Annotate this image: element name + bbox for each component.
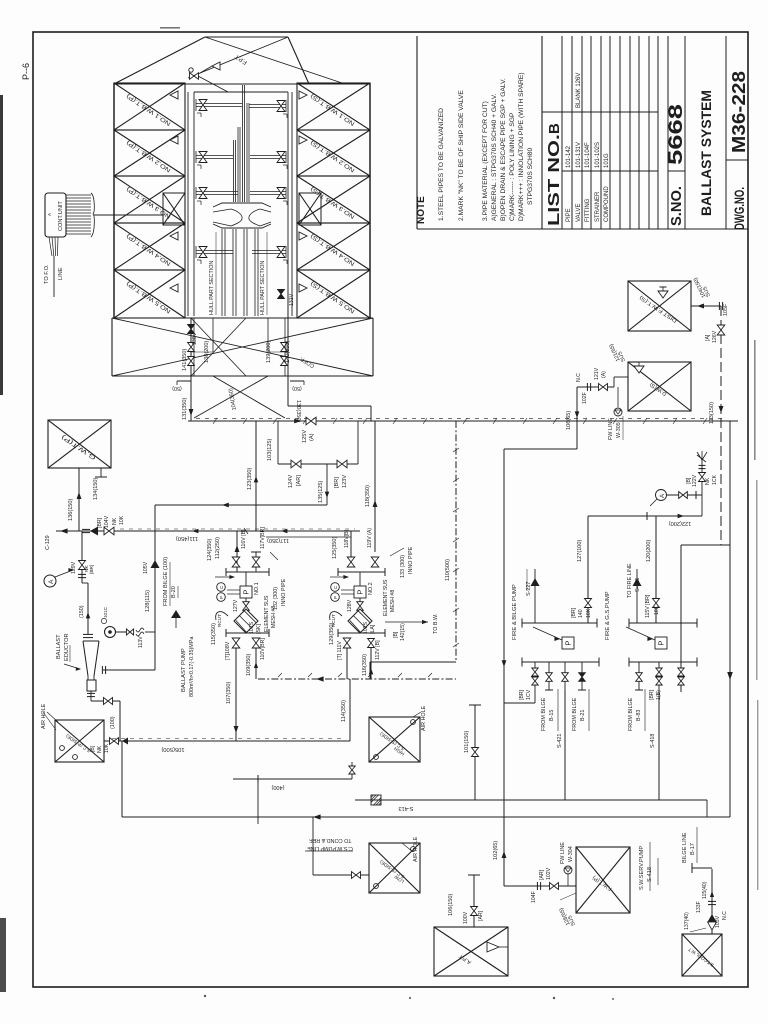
no.1 riser to manifold [236,531,238,572]
collision bulkhead [114,83,370,85]
valve 121V [599,384,608,391]
cont unit drain lines [49,237,52,256]
G.W.T(P) tank [48,420,111,468]
svg-text:105V: 105V [143,561,149,574]
pipe 142(15) to B.W. [385,621,428,623]
tank NO.5 W.B.T.(P) [114,270,185,318]
tank NO.1 W.B.T.(S) [297,83,370,130]
fire pump loop rectangle [681,544,730,546]
no.2 upper manifold [338,571,385,573]
svg-text:122(200): 122(200) [669,520,692,526]
svg-text:P: P [219,596,224,599]
tank NO.4 W.B.T.(S) [297,223,370,270]
header check valve and 104V [82,528,90,530]
svg-text:110V[BR]: 110V[BR] [260,638,266,660]
pipe riser stbd 140(350) [287,291,289,376]
main suction header 111(450) [56,530,360,532]
tank NO.3 W.B.T.(S) [297,176,370,223]
svg-text:118V[B]: 118V[B] [344,529,350,548]
riser port sounding (50) [177,380,191,382]
svg-text:(150): (150) [79,605,85,618]
pipe 113(150) [719,406,724,413]
svg-text:B-20: B-20 [171,586,177,598]
svg-text:P: P [657,641,666,646]
svg-text:142(15): 142(15) [400,623,406,641]
no.1 upper manifold [226,571,269,573]
svg-text:FITTING: FITTING [585,198,591,222]
svg-text:111(450): 111(450) [176,535,198,541]
svg-text:2.MARK "NK" TO BE OF SHIP SIDE: 2.MARK "NK" TO BE OF SHIP SIDE VALVE [458,90,465,221]
svg-text:129(350): 129(350) [329,622,335,645]
svg-text:TO FIRE LINE: TO FIRE LINE [627,563,633,598]
svg-text:135(125): 135(125) [318,480,324,503]
svg-text:NK: NK [112,517,118,525]
svg-text:[A]: [A] [705,334,711,341]
svg-text:123(350): 123(350) [247,467,253,490]
A.P.T tank [434,927,508,976]
pipe riser port 141(350) [190,318,192,421]
svg-text:103V: 103V [715,915,721,928]
flange 105F [718,302,720,310]
strainer 101S [234,609,258,633]
fire gs pump suction manifold [629,622,697,624]
svg-text:1CV: 1CV [526,689,532,700]
pipe TO F.O. LINE [53,256,55,297]
pipe 101(150) [474,705,476,800]
svg-text:130(350): 130(350) [295,400,301,423]
pipe 106(65) [576,387,578,449]
svg-text:[T]108V: [T]108V [225,641,231,660]
svg-text:INNO PIPE: INNO PIPE [408,546,414,574]
svg-text:122V: 122V [692,474,698,487]
svg-text:5668: 5668 [666,104,687,165]
svg-text:NK: NK [705,477,711,485]
svg-text:S-418: S-418 [650,734,656,748]
svg-text:B: B [546,123,563,134]
svg-text:P: P [242,590,251,595]
riser 123(350) [255,421,257,531]
valve on S-high drop [351,762,353,779]
svg-text:RCUT: RCUT [217,614,222,627]
svg-text:(50): (50) [172,385,182,391]
svg-text:118(350): 118(350) [365,485,371,507]
svg-text:104V: 104V [104,515,110,528]
svg-text:NO.1: NO.1 [254,582,260,595]
svg-text:BLANK 126V: BLANK 126V [576,73,582,108]
svg-text:P: P [356,590,365,595]
main ballast header 100(500) horizontal [188,420,738,422]
svg-text:P: P [564,641,573,646]
svg-text:(A): (A) [601,371,607,378]
tank NO.4 W.B.T.(P) [114,223,185,270]
svg-text:LINE: LINE [58,267,64,280]
svg-text:101S: 101S [249,621,255,634]
discharge valves and bilge suctions [534,662,536,703]
fire main 122(200) [588,515,702,517]
label 117(350) [266,536,351,538]
sea chest S-side low [369,843,420,893]
svg-text:VALVE: VALVE [576,204,582,222]
bow valve cluster [190,73,199,79]
svg-text:[AR]: [AR] [539,869,545,880]
svg-text:BALLAST SYSTEM: BALLAST SYSTEM [699,90,714,216]
svg-text:133F: 133F [696,901,702,913]
DIST F.W.T (S) tank [628,281,691,331]
svg-text:128V: 128V [347,599,353,612]
svg-text:AIR HOLE: AIR HOLE [421,705,427,731]
svg-text:127V: 127V [233,599,239,612]
valve BR 140 10K [585,599,592,608]
hull section curves [231,209,242,226]
svg-text:STPG370S SCH80: STPG370S SCH80 [527,147,534,205]
main sea suction 105(500) [104,740,350,742]
bypass loop 103(125) [278,463,358,465]
valve on S-low feed [312,817,314,875]
no.1 gauge and strainer line [245,572,247,586]
svg-text:W-304: W-304 [568,846,574,862]
svg-text:134(150): 134(150) [93,477,99,500]
svg-text:10K: 10K [654,605,660,615]
svg-text:100V: 100V [463,911,469,924]
valve 116V [255,552,257,572]
svg-text:117V[BR]: 117V[BR] [260,527,266,549]
svg-text:[T] 111V: [T] 111V [337,641,343,660]
svg-text:S-425: S-425 [635,578,641,592]
svg-text:A: A [47,213,52,216]
svg-text:ELEMENT SUS: ELEMENT SUS [264,595,270,632]
riser 118(350) [374,421,376,552]
dashed main 110(500) vertical [455,421,457,662]
svg-text:119V (A): 119V (A) [367,528,373,548]
svg-text:C-129: C-129 [45,535,51,550]
svg-text:[BR]: [BR] [97,517,103,528]
svg-text:TO B.W.: TO B.W. [433,614,439,634]
svg-text:10K: 10K [119,515,125,525]
svg-text:125(350): 125(350) [332,536,338,559]
svg-text:NO.2: NO.2 [368,582,374,595]
gs discharge valves [638,662,640,690]
svg-text:131V: 131V [289,293,295,306]
svg-text:101C: 101C [103,606,108,618]
svg-text:110(500): 110(500) [445,559,451,581]
pipe 127(100) [587,516,589,623]
svg-text:[BR]: [BR] [571,607,577,618]
pipe B-17 drop [692,867,712,869]
svg-text:(400): (400) [271,784,284,790]
FW line W-304 [564,866,572,874]
svg-text:FIRE & G.S.PUMP: FIRE & G.S.PUMP [605,591,611,640]
D.W.(S) tank [628,362,691,411]
pipe S-418 drop [658,690,660,800]
svg-text:112(250): 112(250) [215,537,221,559]
fire bilge pump suction manifold [522,622,597,624]
svg-text:120(200): 120(200) [646,539,652,562]
svg-text:(A): (A) [309,433,315,441]
drain hook no.2 [330,612,342,620]
svg-text:STRAINER: STRAINER [595,191,601,222]
pipe 136(150) [78,468,80,531]
svg-text:BALLAST: BALLAST [56,634,62,659]
svg-text:130V: 130V [192,332,198,345]
pipe 102(65) long drop [503,449,505,886]
svg-text:3.PIPE MATERIAL (EXCEPT FOR CU: 3.PIPE MATERIAL (EXCEPT FOR CUT) [482,101,489,221]
sea chest valve NK [110,738,119,745]
S.T.COOL W.T tank [682,934,722,976]
svg-text:101-142: 101-142 [566,145,572,168]
svg-text:M36-228: M36-228 [729,71,749,153]
svg-text:101(150): 101(150) [464,730,470,753]
svg-text:102S: 102S [363,621,369,634]
svg-text:COMPOUND: COMPOUND [604,186,610,222]
svg-text:123V: 123V [342,475,348,488]
fire bilge discharge manifold [522,661,599,663]
svg-text:B-15: B-15 [549,710,555,721]
sea chest S-side high [369,717,420,762]
svg-text:102F: 102F [582,392,588,404]
svg-text:121V: 121V [594,367,600,380]
svg-text:114(350): 114(350) [341,700,347,722]
hull stbd side line [369,83,371,318]
valve 115V BR 10K [653,599,660,608]
svg-text:D)MARK+++ : INNOLATION PIPE (W: D)MARK+++ : INNOLATION PIPE (WITH SPARE) [518,72,525,221]
wire cont.unit to sounding box [94,214,163,216]
ballast pump 101C [105,627,116,638]
svg-text:FW LINE: FW LINE [608,418,614,440]
manifold pipe bundle upper [233,140,235,202]
svg-text:112V [B]: 112V [B] [375,640,381,660]
valve 125V on header [306,417,316,425]
svg-text:A)GENERAL : STPG370S SCH40 + G: A)GENERAL : STPG370S SCH40 + GALV. [491,93,498,221]
pipe trunk walls [187,92,189,316]
svg-text:DWG.NO.: DWG.NO. [732,187,747,230]
header drop at frame side [729,421,731,817]
svg-text:FW LINE: FW LINE [560,842,566,864]
svg-text:10K: 10K [104,743,110,753]
svg-text:1CK: 1CK [712,474,718,485]
svg-text:[BR]: [BR] [649,689,655,700]
pipe no.2 drops [346,648,348,679]
suction crossover 108? horizontal dashed [258,678,456,680]
svg-text:(100): (100) [110,716,116,729]
title block note box [416,36,418,229]
svg-text:141(350): 141(350) [182,348,188,371]
branch 135(125) [326,464,328,505]
pipe S-413 [355,799,707,801]
svg-text:101-104F: 101-104F [585,142,591,168]
pipe down from 105 line [121,741,123,817]
compound gauge A fire [656,490,667,501]
pipe S-421 [564,690,566,800]
no.2 lower manifold [338,632,385,634]
svg-text:137(40): 137(40) [684,912,690,930]
no.2 riser [350,531,352,557]
svg-text:101G: 101G [604,153,610,168]
svg-text:1.STEEL PIPES TO BE GALVANIZED: 1.STEEL PIPES TO BE GALVANIZED [438,108,445,221]
compound gauge A [44,575,56,587]
list table grid [561,36,563,229]
aft cofferdam band [112,317,373,319]
pipe 104(150) SUS into dist tank [691,305,721,307]
svg-text:BILGE LINE: BILGE LINE [682,832,688,863]
svg-text:S.W.SERV.PUMP: S.W.SERV.PUMP [639,846,645,890]
svg-text:(50): (50) [292,385,302,391]
svg-text:103(125): 103(125) [267,438,273,461]
svg-text:C.S.W.PUMP LINE: C.S.W.PUMP LINE [307,845,353,851]
svg-text:124V: 124V [288,475,294,488]
pipe 109(350) [255,648,257,679]
pipe 129V drop to eductor [81,531,83,583]
sounding box port NO.3 [163,193,185,225]
fire gs pump symbol P [655,637,667,649]
tank NO.2 W.B.T.(P) [114,130,185,176]
svg-text:FROM BILGE: FROM BILGE [628,697,634,731]
tank NO.3 W.B.T.(P) [114,176,185,223]
eductor motive inlet [103,669,155,671]
svg-text:[SK]: [SK] [256,624,262,634]
svg-text:B-17: B-17 [690,843,696,855]
pipe 106(150) into APT [473,875,475,927]
svg-text:[B]: [B] [90,745,96,752]
svg-text:800m³/h×0.17(-0.35)MPa: 800m³/h×0.17(-0.35)MPa [189,637,195,697]
FW line W-305 connection [617,387,619,407]
svg-text:104F: 104F [531,891,537,903]
riser stbd sounding (50) [290,380,304,382]
svg-text:117(350): 117(350) [267,537,289,543]
svg-text:ELEMENT SUS: ELEMENT SUS [383,579,389,616]
fire bilge pump symbol P [562,637,574,649]
hull port side line [113,83,115,318]
svg-text:101-102S: 101-102S [595,142,601,168]
valve 122V NK [701,460,703,516]
svg-text:LIST NO.: LIST NO. [546,134,563,226]
svg-text:128(115): 128(115) [145,590,151,612]
svg-text:MESH #8: MESH #8 [271,606,277,628]
pipe S-227 [534,569,536,623]
manifold branch valves stbd [249,104,286,106]
overboard line [122,816,730,818]
F.W.T(P) tank [576,847,630,913]
svg-text:115V [BR]: 115V [BR] [645,594,651,618]
svg-text:129V: 129V [71,561,77,574]
pipe 120(200) [655,516,657,623]
svg-text:101-131V: 101-131V [576,142,582,168]
pipe 107(350) [235,648,237,741]
pipe to cond and ref [257,779,259,824]
svg-text:[BR]: [BR] [334,477,340,488]
svg-text:FROM BILGE (100): FROM BILGE (100) [163,557,169,606]
riser stbd elbow to header [288,405,371,407]
svg-text:C)MARK------ : POLY LINING + S: C)MARK------ : POLY LINING + SGP [509,112,516,221]
svg-text:106(150): 106(150) [448,893,454,916]
svg-text:136(150): 136(150) [68,498,74,521]
svg-text:105(500): 105(500) [161,746,184,752]
scan artifact left edge dark streak [0,95,3,395]
svg-text:126V: 126V [712,330,718,343]
svg-text:113(150): 113(150) [709,402,715,424]
sea chest P-side [55,720,104,762]
pump discharge 128(115) [115,631,134,633]
svg-text:102V: 102V [546,867,552,880]
pipe to fire line S-425 [636,569,638,623]
suction bell triangles in tanks [170,91,178,99]
svg-text:CONT.UNIT: CONT.UNIT [58,201,64,231]
svg-text:HULL PART SECTION: HULL PART SECTION [209,261,215,315]
svg-text:FROM BILGE: FROM BILGE [572,697,578,731]
fire gs discharge manifold [629,661,697,663]
stub 134(150) [100,468,102,477]
no.1 lower manifold [226,632,269,634]
control unit comb lines [66,194,91,196]
svg-text:AIR HOLE: AIR HOLE [413,836,419,862]
svg-text:TO COND.& REF.: TO COND.& REF. [308,837,351,843]
svg-text:S.NO.: S.NO. [668,186,685,226]
svg-text:140: 140 [578,609,584,618]
svg-text:A: A [48,579,55,584]
svg-text:[BR]: [BR] [89,565,95,574]
manifold pipe bundle lower [221,229,223,316]
svg-text:PIPE: PIPE [566,208,572,222]
svg-text:105F: 105F [723,303,729,316]
strainer 102S [348,609,372,633]
svg-text:10K: 10K [586,608,592,618]
svg-text:FIRE & BILGE PUMP: FIRE & BILGE PUMP [512,584,518,640]
svg-text:116(350): 116(350) [362,654,368,676]
svg-text:INNO PIPE: INNO PIPE [281,578,287,606]
svg-text:125V: 125V [302,430,308,443]
tank NO.5 W.B.T.(S) [297,270,370,318]
tank NO.1 W.B.T.(P) [114,83,185,130]
sounding box stbd NO.3 [299,193,321,225]
svg-text:[BR]: [BR] [519,689,525,700]
svg-text:HULL PART SECTION: HULL PART SECTION [260,261,266,315]
svg-text:W-305: W-305 [616,422,622,438]
pipe into FWT 104F 102V [504,885,576,887]
svg-text:BALLAST PUMP: BALLAST PUMP [181,648,187,692]
svg-text:S-413: S-413 [399,805,414,811]
svg-text:133 (300): 133 (300) [400,555,406,578]
svg-text:S-421: S-421 [557,734,563,748]
pipe 114(350) [455,661,457,663]
svg-text:N.C: N.C [722,911,728,920]
svg-text:MESH #8: MESH #8 [390,590,396,612]
svg-text:107(350): 107(350) [226,681,232,704]
svg-text:[B]: [B] [393,631,399,638]
svg-text:102(65): 102(65) [493,841,499,860]
svg-text:NOTE: NOTE [416,196,427,224]
svg-text:115(40): 115(40) [702,881,708,899]
no.2 gauge and strainer line [359,572,361,586]
svg-text:[AR]: [AR] [296,475,302,486]
valve 126V [720,306,722,545]
bow outline F.P.T [114,37,205,84]
ballast eductor [83,633,93,635]
svg-text:TO F.O.: TO F.O. [44,264,50,284]
hull section headers [213,203,271,207]
svg-text:106(65): 106(65) [566,411,572,430]
drain hook no.1 [216,612,228,620]
svg-text:N.C: N.C [576,373,582,382]
tank NO.2 W.B.T.(S) [297,130,370,176]
inno pipe tick marks [213,418,217,424]
svg-text:FROM BILGE: FROM BILGE [541,697,547,731]
svg-text:113V: 113V [138,636,144,648]
eductor outlet valve [90,691,92,701]
svg-text:116V [B]: 116V [B] [241,529,247,549]
svg-text:EDUCTOR: EDUCTOR [64,633,70,661]
svg-text:127(100): 127(100) [577,539,583,562]
svg-text:B-83: B-83 [636,710,642,721]
svg-text:124(350): 124(350) [207,538,213,561]
